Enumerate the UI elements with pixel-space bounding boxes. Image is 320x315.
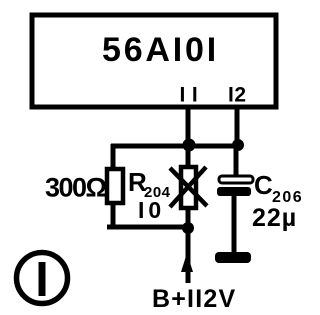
wire pin 12 vertical bbox=[236, 108, 237, 176]
wire capacitor to ground bbox=[232, 195, 237, 253]
figure marker circled 1 bbox=[17, 253, 68, 304]
value label 22u bbox=[252, 204, 297, 232]
wire left branch down to R204 bbox=[111, 144, 116, 170]
crossed-out component body bbox=[181, 167, 196, 208]
svg-text:C: C bbox=[254, 170, 273, 200]
reference label R204 bbox=[128, 167, 171, 201]
resistor R204 body bbox=[107, 169, 123, 203]
reference label C206 bbox=[254, 170, 303, 206]
crossed-out X mark bbox=[170, 167, 207, 207]
svg-text:II: II bbox=[180, 84, 205, 107]
svg-text:56AI0I: 56AI0I bbox=[102, 31, 219, 69]
svg-text:I0: I0 bbox=[138, 197, 165, 223]
ground bar bbox=[215, 252, 251, 263]
wire pin 11 vertical bbox=[186, 108, 191, 283]
capacitor C206 top plate bbox=[219, 176, 253, 183]
value label 300ohm bbox=[45, 173, 107, 203]
node junction dot bottom bbox=[182, 222, 194, 234]
pin 11 label bbox=[180, 84, 205, 107]
svg-text:B+II2V: B+II2V bbox=[152, 285, 236, 313]
B+ supply arrow bbox=[181, 253, 193, 272]
wire R204 bottom to bottom rail bbox=[111, 202, 116, 229]
node junction dot pin12 bbox=[232, 139, 244, 151]
value label 10 bbox=[138, 197, 165, 223]
wire horizontal top net bbox=[111, 144, 238, 149]
node junction dot pin11 bbox=[183, 139, 196, 152]
IC label 56A101 bbox=[102, 31, 219, 69]
net label B+112V bbox=[152, 285, 236, 313]
IC U1 box 56A101 bbox=[32, 15, 276, 107]
svg-text:300Ω: 300Ω bbox=[45, 173, 107, 203]
pin 12 label bbox=[228, 84, 247, 107]
svg-text:I2: I2 bbox=[228, 84, 247, 107]
svg-text:22µ: 22µ bbox=[252, 204, 297, 232]
capacitor C206 bottom plate bbox=[217, 187, 251, 196]
wire horizontal bottom net bbox=[107, 225, 188, 230]
